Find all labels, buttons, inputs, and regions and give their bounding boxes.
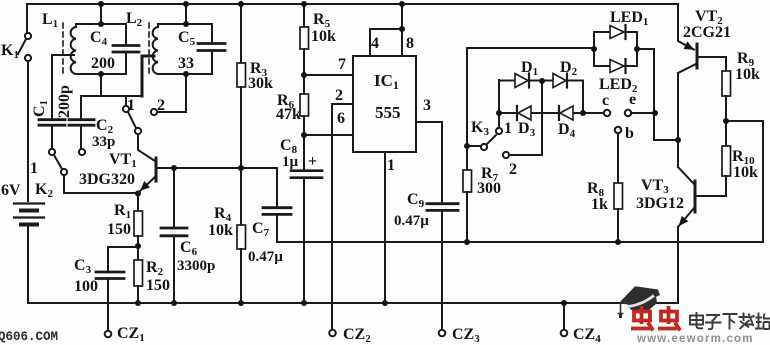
svg-text:2CG21: 2CG21	[683, 24, 731, 41]
diode row bottom wire	[499, 112, 604, 114]
resistor R4	[237, 168, 246, 303]
node rail-pin8	[399, 1, 405, 7]
op IC1 555 box	[353, 56, 416, 152]
capacitor C9	[427, 204, 458, 330]
node D1-D2	[539, 78, 545, 84]
svg-text:33: 33	[178, 55, 194, 72]
switch K2	[49, 149, 85, 175]
svg-text:LED1: LED1	[610, 9, 648, 28]
svg-text:30k: 30k	[248, 75, 273, 92]
wire L1 box top	[76, 23, 126, 25]
diode row top wire	[499, 81, 583, 114]
svg-text:10k: 10k	[735, 66, 760, 83]
svg-text:3DG12: 3DG12	[636, 195, 684, 212]
wire bottom rail	[28, 302, 677, 304]
diode D3	[517, 106, 531, 120]
node e-VT2collector	[675, 137, 681, 143]
node L2 bottom	[183, 71, 189, 77]
wire top rail	[27, 3, 678, 5]
svg-text:C6: C6	[180, 239, 198, 258]
node ground-pin1	[382, 300, 388, 306]
svg-text:4: 4	[371, 35, 379, 52]
logo cap tassel	[620, 303, 622, 313]
node ground-C6	[171, 300, 177, 306]
wire CZ2 drop	[331, 135, 333, 330]
svg-text:www.eeworm.com: www.eeworm.com	[636, 333, 754, 345]
wire C1 tap to L1	[52, 54, 74, 56]
node LED left	[591, 46, 597, 52]
wire VT3 emitter down	[677, 227, 679, 303]
svg-text:CZ3: CZ3	[452, 326, 480, 345]
logo cap board	[619, 286, 661, 305]
wire rail to pin 8	[401, 4, 403, 29]
terminal b	[615, 127, 621, 183]
wire left edge to battery	[27, 61, 29, 201]
logo cap crown	[627, 296, 657, 310]
logo chong2	[658, 306, 680, 331]
terminal e	[625, 110, 655, 116]
node e-line	[652, 110, 658, 116]
LED pair box	[594, 32, 637, 66]
wire K3 pos1 riser	[498, 80, 500, 128]
inductor L1 dashed core	[62, 23, 64, 75]
node L1 bottom	[98, 71, 104, 77]
svg-text:e: e	[629, 91, 636, 108]
svg-text:3300p: 3300p	[177, 258, 215, 274]
svg-text:6V: 6V	[1, 182, 21, 199]
svg-text:D2: D2	[560, 59, 578, 78]
terminal c	[604, 110, 610, 116]
node R7-midrail	[464, 239, 470, 245]
svg-text:1k: 1k	[591, 196, 608, 213]
node pin4-pin8	[399, 26, 405, 32]
wire LED right to e-line	[637, 49, 678, 140]
svg-text:K1: K1	[1, 42, 19, 61]
svg-text:D1: D1	[521, 59, 538, 78]
svg-text:47k: 47k	[276, 106, 301, 123]
wire L1 bottom drop	[100, 74, 102, 96]
terminal CZ1	[105, 331, 112, 338]
inductor L1	[71, 24, 76, 74]
node R3-R4	[238, 165, 244, 171]
svg-text:CZ4: CZ4	[573, 326, 601, 345]
svg-text:200: 200	[91, 55, 115, 72]
svg-text:C1: C1	[31, 100, 50, 117]
node R8-midrail	[615, 239, 621, 245]
svg-text:6: 6	[337, 110, 345, 127]
wire pin3 to C9	[416, 122, 442, 203]
svg-text:0.47µ: 0.47µ	[394, 213, 429, 229]
svg-text:100: 100	[74, 278, 98, 295]
svg-text:+: +	[308, 153, 317, 170]
diode D2	[553, 74, 567, 88]
wire VT2 collector down	[677, 73, 679, 167]
wire L2 box top	[158, 23, 212, 25]
capacitor C5	[198, 24, 225, 74]
wire L2 bottom to selector pos2	[157, 74, 186, 112]
wire K2 common to VT1 emitter node	[64, 175, 138, 193]
svg-text:L1: L1	[42, 11, 58, 30]
svg-text:C4: C4	[90, 29, 108, 48]
battery 6V	[14, 204, 44, 225]
wire selector pos1 riser	[125, 96, 127, 105]
switch K3	[467, 128, 509, 158]
transistor VT2	[678, 4, 726, 73]
node LED right	[634, 46, 640, 52]
wire left edge upper	[26, 4, 28, 32]
svg-text:0.47µ: 0.47µ	[248, 249, 283, 265]
terminal CZ2	[329, 330, 336, 337]
capacitor C3	[96, 247, 138, 331]
svg-text:C9: C9	[407, 191, 425, 210]
node rail-L1	[98, 1, 104, 7]
wire L2 tap	[142, 56, 154, 96]
node L1 top	[98, 21, 104, 27]
svg-text:10k: 10k	[311, 28, 336, 45]
node collector-C6	[171, 165, 177, 171]
svg-text:150: 150	[146, 277, 170, 294]
capacitor C1	[39, 55, 65, 148]
svg-text:VT3: VT3	[641, 177, 669, 196]
svg-text:200p: 200p	[56, 85, 73, 118]
svg-text:150: 150	[107, 221, 131, 238]
node VT1 emitter	[135, 191, 141, 197]
node pin6-R6-C8	[301, 132, 307, 138]
svg-text:C7: C7	[252, 220, 270, 239]
svg-text:C5: C5	[178, 29, 196, 48]
resistor R2	[134, 246, 143, 303]
svg-text:2: 2	[335, 87, 343, 104]
svg-text:3: 3	[423, 97, 431, 114]
wire rail to L1	[100, 4, 102, 24]
svg-text:1µ: 1µ	[282, 154, 299, 170]
diode D4	[559, 106, 573, 120]
svg-text:R2: R2	[146, 259, 164, 278]
wire selector common to VT1 base	[138, 134, 155, 161]
eeworm logo	[618, 286, 770, 345]
node rail-R3	[238, 1, 244, 7]
svg-text:c: c	[602, 92, 609, 109]
resistor R1	[134, 194, 143, 246]
wire VT1 collector line	[174, 167, 277, 169]
svg-text:C3: C3	[74, 257, 92, 276]
capacitor C6	[161, 168, 187, 303]
svg-text:10k: 10k	[733, 164, 758, 181]
inductor L2 dashed core	[148, 23, 150, 77]
svg-text:Q606.COM: Q606.COM	[0, 330, 58, 344]
node R9-R10	[723, 118, 729, 124]
node ground-R2	[135, 300, 141, 306]
node L2 top	[183, 21, 189, 27]
svg-text:K3: K3	[471, 119, 489, 138]
resistor R5	[300, 4, 309, 75]
wire L1 box bottom	[76, 73, 126, 75]
diode D1	[515, 74, 529, 88]
svg-text:D3: D3	[518, 120, 536, 139]
svg-text:1: 1	[30, 160, 38, 177]
svg-text:1: 1	[387, 157, 395, 174]
svg-text:2: 2	[157, 97, 165, 114]
node rail-L2	[183, 1, 189, 7]
capacitor C8 electrolytic	[291, 135, 322, 303]
svg-text:1: 1	[127, 97, 135, 114]
svg-text:555: 555	[375, 103, 401, 122]
inductor L2	[153, 24, 158, 74]
resistor R9	[722, 57, 731, 121]
wire LED feed left	[467, 47, 594, 49]
logo chong1	[631, 306, 653, 331]
transistor VT1	[139, 158, 174, 192]
svg-text:CZ1: CZ1	[117, 325, 145, 344]
LED1	[610, 25, 626, 39]
capacitor C7	[263, 168, 291, 242]
wire node line C2/L1/L2tap	[81, 95, 142, 97]
resistor R10	[697, 121, 731, 196]
svg-text:D4: D4	[558, 121, 576, 140]
svg-text:K2: K2	[35, 181, 53, 200]
node ground-CZ4	[561, 300, 567, 306]
terminal CZ3	[439, 330, 446, 337]
capacitor C2	[69, 97, 94, 148]
svg-text:3DG320: 3DG320	[79, 171, 135, 188]
node R1-R2-C3	[135, 243, 141, 249]
switch wave-band selector (upper)	[123, 106, 157, 134]
wire L2 box bottom	[158, 73, 212, 75]
wire mid rail y242	[277, 121, 763, 242]
resistor R8	[614, 183, 623, 242]
transistor VT3	[678, 167, 695, 227]
wire rail to L2	[185, 4, 187, 24]
wire K3 column	[466, 48, 468, 146]
wire pin2	[332, 104, 353, 135]
resistor R3	[237, 4, 246, 168]
capacitor C4	[113, 24, 139, 74]
node D2-D4-c	[580, 110, 586, 116]
svg-text:CZ2: CZ2	[343, 326, 371, 345]
svg-text:VT1: VT1	[109, 151, 137, 170]
node ground-C8	[301, 300, 307, 306]
logo site name glyphs	[690, 312, 770, 330]
switch K1	[18, 33, 31, 61]
svg-text:2: 2	[509, 161, 517, 178]
svg-text:8: 8	[406, 35, 414, 52]
node K3-R7	[464, 143, 470, 149]
svg-text:10k: 10k	[208, 222, 233, 239]
wire battery to bottom rail	[27, 227, 29, 303]
terminal CZ4	[561, 303, 568, 336]
wire pin7	[304, 74, 353, 76]
resistor R7	[463, 150, 472, 242]
logo cap swoosh	[627, 296, 654, 307]
svg-text:R1: R1	[114, 202, 131, 221]
node pin7-R5-R6	[301, 72, 307, 78]
node ground-R4	[238, 300, 244, 306]
svg-text:300: 300	[477, 180, 501, 197]
wire pin6	[304, 134, 353, 136]
svg-text:L2: L2	[126, 10, 143, 29]
svg-text:1: 1	[504, 120, 512, 137]
node K3pos1-D1-D3	[496, 110, 502, 116]
svg-text:33p: 33p	[92, 134, 115, 150]
svg-text:7: 7	[338, 56, 346, 73]
svg-text:b: b	[625, 125, 634, 142]
wire pins 4,8 loop	[370, 29, 402, 56]
wire pin1 drop	[384, 152, 386, 303]
wire K3 pos2 to top diode row	[509, 81, 542, 155]
resistor R6	[300, 75, 309, 135]
LED2	[610, 59, 626, 73]
node rail-R5	[301, 1, 307, 7]
